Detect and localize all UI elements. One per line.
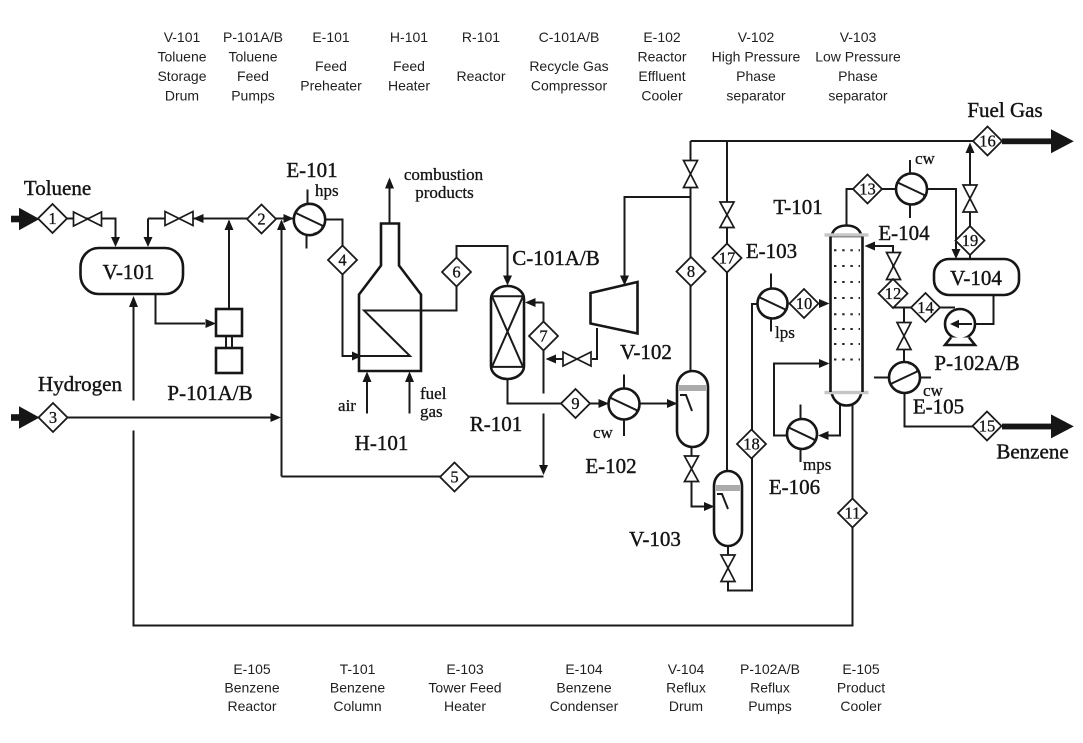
wire V-104 bottoms to P-102 [975,294,994,324]
svg-text:P-102A/B: P-102A/B [740,661,800,677]
wire R-101 effluent to E-102 [508,378,610,408]
valve V-101 return [165,212,193,226]
product arrow Fuel Gas [967,98,1073,153]
pump P-102A/B [945,309,975,345]
svg-text:Phase: Phase [838,68,878,84]
svg-text:H-101: H-101 [390,29,428,45]
wire E-105 cw stubs [874,377,931,379]
svg-text:16: 16 [979,132,996,151]
svg-text:Pumps: Pumps [748,698,792,714]
svg-text:Cooler: Cooler [840,698,882,714]
vessel V-104 reflux drum [934,259,1019,295]
stream tag 19 [956,226,985,255]
svg-text:Low Pressure: Low Pressure [815,49,901,65]
svg-text:C-101A/B: C-101A/B [539,29,600,45]
svg-text:V-103: V-103 [629,527,681,551]
stream tag 11 [838,499,867,528]
svg-text:V-104: V-104 [950,266,1002,290]
svg-text:Fuel Gas: Fuel Gas [967,98,1042,122]
svg-text:E-102: E-102 [643,29,681,45]
label air / fuel gas / H-101 [338,384,447,455]
stream tag 7 [529,322,558,351]
svg-text:3: 3 [49,408,57,427]
svg-text:C-101A/B: C-101A/B [512,246,600,270]
valve V-102 overhead (vertical) [684,161,698,188]
svg-text:Cooler: Cooler [641,88,683,104]
wire V-101 spillback return [144,214,294,247]
label P-101A/B [167,381,252,405]
stream tag 4 [328,246,357,275]
reactor R-101 [470,286,524,436]
label E-102 and cw [585,423,636,478]
svg-text:11: 11 [845,504,861,523]
svg-text:E-105: E-105 [842,661,880,677]
label E-106 and mps [769,455,832,499]
wire E-101 to H-101 coil [326,220,513,361]
svg-text:4: 4 [338,251,346,270]
valve recycle gas [563,352,591,366]
stream tag 10 [790,289,819,318]
svg-text:Condenser: Condenser [550,698,619,714]
stream tag 13 [853,175,882,204]
svg-text:Hydrogen: Hydrogen [38,372,122,396]
label combustion products [404,165,484,202]
wire R-101 inlet from recycle [525,298,544,307]
svg-text:13: 13 [859,180,876,199]
stream tag 12 [879,279,908,308]
wire compressor suction [620,197,691,286]
svg-text:18: 18 [743,435,760,454]
wire E-106 vapor return to T-101 [774,359,830,436]
svg-text:Feed: Feed [237,68,269,84]
svg-text:17: 17 [719,249,736,268]
valve V-103 bottoms (vertical) [721,555,735,582]
label P-102A/B [934,351,1019,375]
svg-text:lps: lps [775,323,795,342]
svg-text:E-104: E-104 [565,661,603,677]
svg-text:Column: Column [333,698,381,714]
svg-text:15: 15 [979,417,996,436]
heat exchanger E-101 feed preheater [294,190,325,249]
valve stream 17 (vertical) [720,202,734,228]
svg-text:R-101: R-101 [470,412,523,436]
vessel V-102 high pressure separator [620,340,708,447]
svg-text:Heater: Heater [444,698,486,714]
stream tag 17 [713,244,742,273]
heat exchanger E-103 tower feed heater [758,274,788,332]
svg-text:8: 8 [687,262,695,281]
column T-101 benzene column [825,226,869,406]
svg-text:V-104: V-104 [668,661,705,677]
svg-text:products: products [415,183,474,202]
label T-101 [773,195,822,219]
svg-text:E-101: E-101 [286,158,337,182]
svg-text:Storage: Storage [157,68,206,84]
svg-text:separator: separator [726,88,785,104]
svg-text:Benzene: Benzene [330,680,385,696]
svg-text:P-101A/B: P-101A/B [223,29,283,45]
svg-text:Reactor: Reactor [227,698,276,714]
svg-text:Tower Feed: Tower Feed [428,680,501,696]
stream tag 5 [440,463,469,492]
svg-text:P-102A/B: P-102A/B [934,351,1019,375]
wire V-102 bottoms to V-103 [692,446,715,511]
wire reflux riser to T-101 [865,242,894,308]
svg-text:E-101: E-101 [312,29,350,45]
vessel V-101 toluene storage drum [81,248,184,294]
wire E-102 to V-102 [640,399,678,408]
footer equipment labels [224,661,885,714]
svg-text:Preheater: Preheater [300,78,362,94]
svg-text:Benzene: Benzene [996,440,1068,464]
label E-105 and cw [913,381,964,419]
wire toluene feed to V-101 [40,219,121,248]
svg-text:Reactor: Reactor [456,68,505,84]
stream tag 2 [247,205,276,234]
svg-text:cw: cw [915,149,936,168]
svg-text:14: 14 [917,298,934,317]
wire combustion products stack arrow [385,178,394,224]
svg-text:2: 2 [257,210,265,229]
wire recycle riser x282 [277,220,286,477]
svg-text:Effluent: Effluent [638,68,685,84]
wire T-101 overhead to E-104 [847,189,897,226]
svg-text:mps: mps [803,455,831,474]
svg-text:hps: hps [315,181,339,200]
wire hydrogen feed [40,413,282,422]
stream tag 18 [737,430,766,459]
svg-text:E-106: E-106 [769,475,820,499]
valve V-104 vent (vertical) [963,185,977,212]
label E-104 and cw [878,149,935,245]
stream tag 15 [973,412,1002,441]
svg-text:Reflux: Reflux [750,680,790,696]
svg-text:E-105: E-105 [233,661,271,677]
product arrow Benzene [996,414,1073,463]
svg-text:Heater: Heater [388,78,430,94]
compressor C-101A/B [512,246,637,334]
svg-text:V-101: V-101 [164,29,201,45]
heat exchanger E-102 [609,375,640,437]
svg-text:Product: Product [837,680,885,696]
valve V-102 bottoms (vertical) [685,456,699,482]
wire P-102 discharge [893,307,955,309]
svg-text:9: 9 [571,394,579,413]
valve benzene product (vertical) [897,323,911,350]
svg-text:Feed: Feed [315,58,347,74]
svg-text:fuel: fuel [420,384,447,403]
svg-text:V-103: V-103 [840,29,877,45]
wire V-102 overhead riser [690,141,692,371]
svg-text:10: 10 [796,294,813,313]
stream tag 14 [911,293,940,322]
wire fuel gas header [691,140,975,142]
stream tag 1 [38,204,67,233]
valve reflux (vertical) [887,253,901,280]
header equipment labels [157,29,901,104]
wire stream 5 line [282,476,544,478]
heat exchanger E-106 reboiler [787,405,817,463]
svg-text:Toluene: Toluene [157,49,206,65]
svg-text:Benzene: Benzene [224,680,279,696]
svg-text:E-103: E-103 [746,239,797,263]
feed arrow Toluene [11,176,91,230]
svg-text:R-101: R-101 [462,29,500,45]
wire E-103 to T-101 feed [788,299,830,308]
feed arrow Hydrogen [11,372,122,429]
svg-text:Reflux: Reflux [666,680,706,696]
stream tag 8 [677,257,706,286]
svg-text:Compressor: Compressor [531,78,608,94]
svg-text:V-102: V-102 [738,29,775,45]
label E-103 and lps [746,239,797,342]
svg-text:Reactor: Reactor [637,49,686,65]
svg-text:Recycle Gas: Recycle Gas [529,58,608,74]
wire fuel gas inlet arrow [405,372,414,414]
stream tag 3 [39,403,68,432]
wire recycle gas downcomer x543 [539,303,548,476]
svg-text:V-101: V-101 [103,260,155,284]
stream tag 9 [561,389,590,418]
svg-text:Toluene: Toluene [228,49,277,65]
svg-text:E-105: E-105 [913,395,964,419]
svg-text:T-101: T-101 [773,195,822,219]
wire toluene recycle bottom line [129,296,853,626]
svg-text:Benzene: Benzene [556,680,611,696]
wire P-101 discharge riser [225,220,234,310]
heat exchanger E-105 product cooler [889,362,920,393]
svg-text:gas: gas [420,402,443,421]
furnace H-101 [343,224,422,372]
svg-text:separator: separator [828,88,887,104]
svg-text:19: 19 [962,231,979,250]
svg-text:1: 1 [48,209,56,228]
svg-text:E-102: E-102 [585,454,636,478]
svg-text:P-101A/B: P-101A/B [167,381,252,405]
valve toluene inlet [74,212,102,226]
svg-text:cw: cw [593,423,614,442]
svg-text:H-101: H-101 [355,431,409,455]
wire E-104 to V-104 [927,189,961,259]
svg-text:Pumps: Pumps [231,88,275,104]
wire V-101 outlet to P-101 [156,293,217,328]
wire compressor discharge through valve [546,328,598,364]
stream tag 16 [973,127,1002,156]
wire T-101 bottoms to E-106 [818,400,840,440]
svg-text:E-104: E-104 [878,221,930,245]
svg-text:High Pressure: High Pressure [712,49,801,65]
svg-text:Drum: Drum [669,698,703,714]
label E-101 and hps [286,158,338,200]
svg-text:5: 5 [450,468,458,487]
svg-text:air: air [338,396,356,415]
svg-text:T-101: T-101 [340,661,376,677]
svg-text:Phase: Phase [736,68,776,84]
wire V-104 vent to fuel gas [966,143,975,259]
svg-text:E-103: E-103 [446,661,484,677]
wire air inlet arrow [363,372,372,414]
wire stream 17 line to V-103 [726,141,728,470]
vessel V-103 low pressure separator [629,471,742,551]
wire benzene product through E-105 [904,308,973,427]
wire V-103 bottoms to E-103 [728,304,758,591]
svg-text:V-102: V-102 [620,340,672,364]
svg-text:Toluene: Toluene [24,176,91,200]
svg-text:7: 7 [539,327,547,346]
heat exchanger E-104 benzene condenser [896,160,927,218]
pump P-101A/B [216,309,242,373]
svg-text:6: 6 [452,263,460,282]
svg-text:Feed: Feed [393,58,425,74]
svg-text:12: 12 [885,284,902,303]
svg-text:combustion: combustion [404,165,484,184]
svg-text:Drum: Drum [165,88,199,104]
stream tag 6 [442,258,471,287]
